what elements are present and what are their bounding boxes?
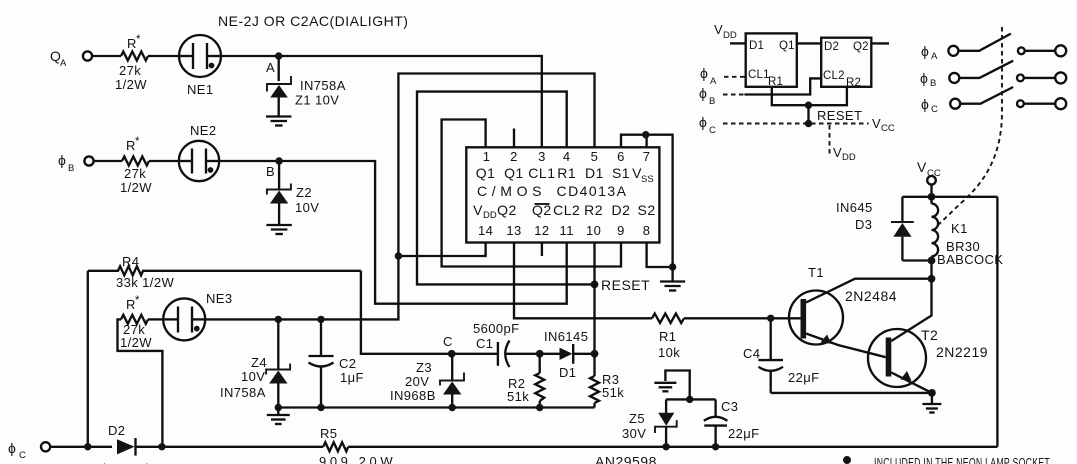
wire pin 7 to S nest (645, 135, 647, 148)
svg-text:S2: S2 (638, 202, 656, 218)
svg-text:SS: SS (641, 174, 654, 185)
svg-text:K1: K1 (951, 221, 968, 236)
wire R* to NE3 (148, 318, 163, 320)
switch phiA (921, 34, 1066, 62)
svg-text:33k 1/2W: 33k 1/2W (116, 275, 174, 290)
resistor R1 10k (652, 314, 684, 361)
svg-text:ϕ: ϕ (699, 85, 707, 101)
wire ground jog (665, 371, 689, 400)
svg-text:R4: R4 (122, 254, 139, 269)
wire node A to pin 3 (CL1) (221, 56, 542, 147)
svg-text:C: C (443, 334, 453, 349)
dashed stub to VDD (829, 125, 831, 154)
svg-text:D1: D1 (749, 40, 764, 52)
svg-text:10k: 10k (658, 345, 680, 360)
svg-text:AN29598: AN29598 (595, 454, 657, 464)
ground below Z2 (266, 225, 291, 234)
svg-text:DD: DD (723, 30, 737, 41)
node B (266, 157, 283, 179)
svg-text:Z2: Z2 (296, 185, 312, 200)
flip-flop block diagram: VDD feed (714, 22, 746, 43)
svg-text:30V: 30V (622, 426, 646, 441)
label phiA (block) (700, 65, 717, 87)
node T2 emitter ground (928, 389, 936, 397)
node pin7 junction (642, 131, 649, 138)
transistor T1 2N2484 (789, 265, 932, 357)
svg-text:Z3: Z3 (416, 360, 432, 375)
svg-text:C3: C3 (721, 399, 738, 414)
input terminal phi-B (58, 152, 94, 174)
wire R4 right leg down to node C (361, 271, 452, 354)
node C (443, 334, 456, 358)
resistor R* (27k 1/2W, row C) (120, 295, 152, 350)
svg-text:C4: C4 (743, 346, 760, 361)
node coil bottom (928, 257, 936, 265)
svg-text:NE2: NE2 (190, 123, 217, 138)
wire node B to pin 11 (CL2) (219, 161, 567, 304)
svg-text:IN758A: IN758A (220, 385, 266, 400)
wire phiC line to R4 tap (50, 446, 112, 448)
svg-text:13: 13 (506, 223, 521, 238)
svg-text:7: 7 (643, 149, 651, 164)
pin 12 stub (541, 243, 543, 257)
wire pin 10 (R2) down to D1/R3 node (593, 243, 595, 354)
svg-text:Z4: Z4 (251, 355, 267, 370)
svg-text:R2: R2 (584, 202, 603, 218)
svg-text:BABCOCK: BABCOCK (937, 252, 1003, 267)
ground below Z1 (266, 117, 291, 126)
svg-text:B: B (266, 164, 275, 179)
wire R5 to right rail (348, 446, 997, 448)
resistor R3 51k (590, 354, 624, 408)
svg-text:C1: C1 (476, 336, 493, 351)
svg-text:CL2: CL2 (823, 70, 845, 82)
svg-text:CD4013A: CD4013A (557, 183, 627, 199)
wire R* to NE1 (148, 55, 179, 57)
svg-text:DD: DD (842, 152, 856, 163)
svg-text:Q2: Q2 (497, 202, 517, 218)
wire Q1 to D2 (797, 42, 821, 44)
switch phiC (921, 87, 1066, 115)
node C4 top (767, 315, 774, 322)
wire Q2 output (871, 42, 889, 44)
svg-text:14: 14 (478, 223, 493, 238)
svg-text:DD: DD (483, 210, 497, 221)
wire reset down to phiC line (807, 105, 809, 123)
ground IC (S1,S2,VSS) (660, 267, 685, 291)
svg-text:D3: D3 (855, 217, 872, 232)
svg-text:A: A (266, 60, 275, 75)
wire QA to R* (92, 55, 121, 57)
svg-text:ϕ: ϕ (8, 440, 16, 456)
node C3 bottom (712, 443, 719, 450)
svg-text:D1: D1 (585, 165, 604, 181)
node R2 bottom (536, 404, 543, 411)
svg-text:D2: D2 (824, 41, 839, 53)
diode D2 (1N4002) (101, 423, 151, 464)
label phiC (block) (699, 114, 716, 136)
resistor R4 33k 1/2W (88, 254, 361, 290)
resistor R2 51k (507, 354, 544, 408)
svg-text:INCLUDED IN THE NEON LAMP SOCK: INCLUDED IN THE NEON LAMP SOCKET (874, 455, 1050, 464)
svg-text:*: * (135, 295, 140, 307)
svg-text:V: V (714, 22, 723, 37)
svg-text:*: * (135, 136, 140, 148)
resistor R* (27k 1/2W, row B) (120, 136, 152, 195)
dashed wire phiA to CL1 (724, 76, 746, 78)
svg-text:11: 11 (560, 223, 574, 238)
svg-text:V: V (872, 116, 881, 131)
note: included in the neon lamp socket (843, 455, 1050, 464)
input terminal QA (50, 48, 92, 69)
svg-text:1/2W: 1/2W (120, 335, 152, 350)
svg-text:C2: C2 (339, 356, 356, 371)
svg-text:ϕ: ϕ (700, 65, 708, 81)
neon lamp NE3 (163, 291, 232, 340)
node Z4 bottom / ground tap (275, 404, 282, 411)
svg-text:A: A (931, 51, 938, 62)
svg-text:Q1: Q1 (476, 165, 496, 181)
svg-text:10V: 10V (241, 369, 265, 384)
svg-text:D1: D1 (559, 365, 576, 380)
transistor T2 2N2219 (868, 279, 988, 393)
capacitor C2 1uF (309, 319, 364, 407)
svg-text:*: * (136, 34, 141, 46)
resistor R5 909 20W (319, 426, 393, 464)
wire Q1 nest: pin 1 to pin 9 (D2) (442, 120, 621, 267)
node S ground junction (669, 263, 676, 270)
zener diode Z3 1N968B 20V (390, 354, 464, 408)
diode D1 IN6145 (540, 329, 595, 380)
node VDD junction (395, 252, 402, 259)
wire S nest: pin 6, pin 7 to ground rail right of IC (621, 135, 673, 267)
wire R1 to T1 base (684, 317, 801, 319)
node C2 bottom (317, 404, 324, 411)
wire phiB to R* (94, 160, 122, 162)
svg-text:8: 8 (643, 223, 651, 238)
diode D3 IN645 (836, 197, 932, 261)
svg-text:Q1: Q1 (779, 40, 795, 52)
wire Z5/C3 node line (666, 398, 716, 400)
svg-text:CL2: CL2 (553, 202, 580, 218)
svg-text:IN645: IN645 (836, 200, 873, 215)
svg-text:NE-2J OR C2AC(DIALIGHT): NE-2J OR C2AC(DIALIGHT) (218, 13, 408, 29)
node block reset (805, 102, 812, 109)
capacitor C4 22uF (743, 318, 820, 393)
svg-text:R2: R2 (846, 77, 861, 89)
ground at T2 emitter (922, 393, 941, 413)
node RESET (591, 277, 651, 293)
svg-text:5: 5 (591, 149, 599, 164)
svg-text:22μF: 22μF (728, 426, 760, 441)
resistor R* (27k 1/2W, row A) (115, 34, 148, 92)
svg-text:C: C (931, 104, 938, 115)
capacitor C1 5600pF (452, 321, 540, 367)
node Z5 bottom (662, 443, 669, 450)
svg-text:V: V (473, 202, 483, 218)
wire R1,R2 reset tie (772, 87, 847, 105)
terminal VCC (917, 159, 941, 197)
wire D2 to R5 (136, 446, 324, 448)
svg-text:CL1: CL1 (748, 69, 770, 81)
label phiB (block) (699, 85, 715, 107)
svg-text:27k: 27k (124, 166, 146, 181)
svg-text:51k: 51k (507, 389, 529, 404)
svg-text:Q1: Q1 (504, 165, 524, 181)
node collectors junction (928, 275, 936, 283)
svg-text:NE3: NE3 (206, 291, 233, 306)
svg-text:Q2: Q2 (853, 41, 869, 53)
node R4 tap (84, 443, 91, 450)
wire R* to NE2 (149, 160, 179, 162)
svg-text:ϕ: ϕ (921, 96, 929, 112)
svg-text:ϕ: ϕ (699, 114, 707, 130)
svg-text:D2: D2 (612, 202, 631, 218)
wire phiB to CL2 (744, 78, 821, 94)
capacitor C3 22uF (704, 399, 760, 447)
neon lamp NE1 (179, 35, 221, 97)
neon lamp NE2 (179, 123, 219, 181)
svg-text:51k: 51k (602, 385, 624, 400)
wire C4 bottom to T2 emitter ground (771, 392, 932, 394)
svg-text:6: 6 (617, 149, 625, 164)
wire VDD net: pin 5 (D1) nest to pin 14 and NE3 line (205, 74, 594, 320)
wire pin 8 to ground junction (647, 243, 673, 268)
relay coil K1 BR30 BABCOCK (932, 197, 1004, 279)
wire R* left jog down to phiC line after D2 (118, 319, 163, 446)
svg-text:B: B (709, 96, 715, 107)
svg-text:ϕ: ϕ (921, 43, 929, 59)
svg-text:V: V (833, 145, 842, 160)
dashed wire phiB stub (723, 94, 744, 96)
node block phiC/reset (805, 120, 812, 127)
ground below rail at Z4 (267, 408, 290, 425)
svg-text:20V: 20V (405, 374, 429, 389)
pin 2 stub (513, 129, 515, 148)
flip-flop FF1 box (746, 33, 797, 88)
wire ground rail (Z4 to R3) (278, 406, 594, 408)
node A (266, 52, 282, 75)
svg-text:T1: T1 (808, 265, 824, 280)
wire pin 14 stub to VDD vertical (398, 243, 485, 257)
svg-text:1/2W: 1/2W (115, 77, 147, 92)
svg-text:D2: D2 (108, 423, 125, 438)
switch phiB (920, 61, 1066, 89)
svg-text:B: B (930, 78, 936, 89)
node Z4 top (275, 316, 282, 323)
node D1/R3/RESET (591, 350, 599, 358)
svg-text:909 20W: 909 20W (319, 454, 393, 464)
svg-text:1μF: 1μF (340, 370, 364, 385)
svg-text:ϕ: ϕ (920, 70, 928, 86)
svg-text:S1: S1 (612, 165, 630, 181)
node C1 right / R2 top (536, 350, 544, 358)
svg-text:C: C (709, 125, 716, 136)
svg-text:R1: R1 (659, 329, 676, 344)
svg-text:IN758A: IN758A (300, 78, 346, 93)
svg-text:9: 9 (617, 223, 625, 238)
node VCC (928, 193, 936, 201)
label VCC (block) (872, 116, 895, 134)
svg-text:R1: R1 (768, 76, 783, 88)
svg-text:RESET: RESET (601, 277, 650, 293)
zener diode Z5 30V (622, 399, 677, 446)
svg-text:A: A (60, 58, 67, 69)
wire R nest: pin 4 (R1) to RESET row to pin 10 (R2) (417, 92, 595, 285)
svg-text:V: V (917, 159, 927, 175)
svg-text:T2: T2 (921, 327, 938, 343)
node Z5/C3 ground tap (686, 396, 693, 403)
wire right-side VCC rail (996, 197, 998, 447)
svg-text:Z1 10V: Z1 10V (295, 93, 339, 108)
svg-text:22μF: 22μF (788, 370, 820, 385)
input terminal phi-C (8, 440, 50, 461)
svg-text:2: 2 (510, 149, 518, 164)
svg-text:ϕ: ϕ (58, 152, 66, 168)
zener diode Z4 1N758A 10V (220, 319, 290, 407)
node C2 top (317, 316, 324, 323)
dashed wire phiC to VCC (723, 123, 869, 125)
svg-text:R5: R5 (320, 426, 337, 441)
op IC U1 C/MOS CD4013A (466, 147, 659, 242)
wire pin 13 (Q2) to R1 and T1 base (514, 243, 652, 319)
svg-text:CL1: CL1 (528, 165, 555, 181)
svg-text:2N2484: 2N2484 (845, 288, 897, 304)
zener diode Z2 10V (267, 161, 319, 225)
svg-text:IN6145: IN6145 (544, 329, 588, 344)
svg-text:R1: R1 (557, 165, 576, 181)
svg-text:10V: 10V (295, 200, 319, 215)
wire R4 left leg to phiC line (87, 271, 89, 447)
label VDD (block) (833, 145, 856, 163)
svg-text:C/MOS: C/MOS (477, 183, 542, 199)
node NE3 jog tap (158, 443, 165, 450)
dashed mechanical linkage to relay (936, 27, 1002, 227)
svg-text:27k: 27k (119, 63, 141, 78)
wire relay top line (902, 196, 997, 198)
svg-text:2N2219: 2N2219 (936, 344, 988, 360)
svg-text:3: 3 (538, 149, 546, 164)
node Z3 bottom (449, 404, 456, 411)
svg-text:RESET: RESET (817, 108, 862, 123)
svg-text:4: 4 (563, 149, 571, 164)
svg-text:1: 1 (483, 149, 491, 164)
ground at Z5 node (654, 383, 676, 392)
svg-text:IN968B: IN968B (390, 388, 436, 403)
svg-text:5600pF: 5600pF (473, 321, 520, 336)
svg-text:A: A (710, 76, 717, 87)
svg-text:1/2W: 1/2W (120, 180, 152, 195)
svg-text:CC: CC (881, 123, 895, 134)
svg-text:B: B (68, 163, 74, 174)
svg-text:10: 10 (586, 223, 601, 238)
svg-text:NE1: NE1 (187, 82, 214, 97)
svg-text:C: C (19, 450, 26, 461)
svg-text:12: 12 (534, 223, 549, 238)
flip-flop FF2 box (821, 38, 871, 89)
zener diode Z1 1N758A 10V (267, 56, 346, 116)
svg-text:Z5: Z5 (629, 411, 645, 426)
